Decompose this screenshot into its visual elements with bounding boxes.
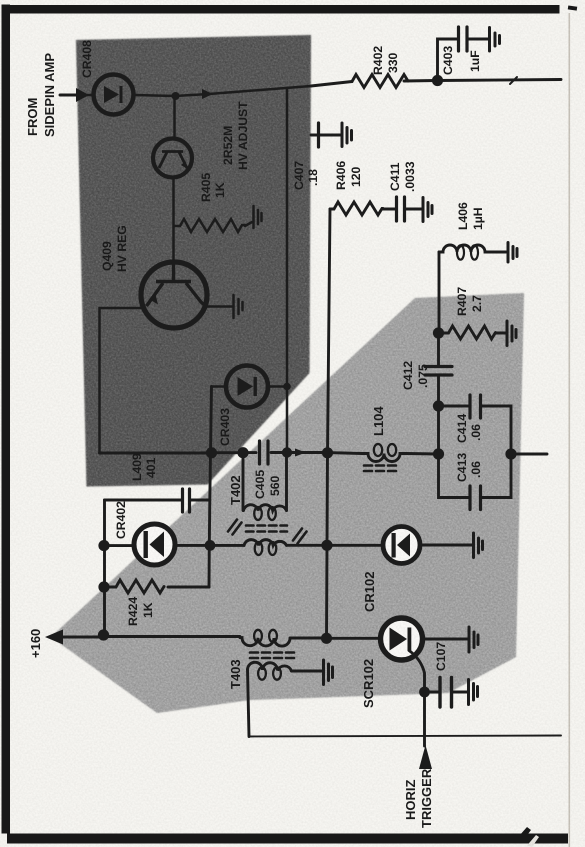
- node CR403-R402 vertical: [286, 88, 289, 453]
- transistor Q408: [153, 139, 192, 178]
- faint page edge line right: [569, 13, 571, 847]
- capacitor C411: [397, 197, 405, 221]
- node junction L104-bus: [322, 447, 333, 458]
- capacitor C413: [470, 486, 481, 510]
- inductor L104: [362, 454, 406, 462]
- node junction bus-T402 right: [282, 447, 292, 457]
- node junction C403: [432, 75, 443, 86]
- transformer T403 lower winding: [248, 662, 292, 671]
- wire node up to C403: [438, 39, 458, 81]
- wire node to R402 exit: [209, 86, 311, 94]
- wire Q409 left loop to bus: [100, 308, 142, 453]
- wire left vertical x104: [103, 500, 106, 637]
- ground (CR102): [474, 533, 483, 558]
- ground (C411): [423, 198, 432, 222]
- wire R407 node down to C412: [437, 333, 440, 366]
- node junction right mid: [505, 448, 516, 459]
- resistor R402: [352, 75, 408, 88]
- +160 feed arrowhead: [45, 630, 63, 645]
- diode CR402: [134, 524, 175, 565]
- core T402: [228, 520, 307, 544]
- Q408 internals: [159, 152, 188, 170]
- node junction C107: [419, 687, 430, 698]
- page curl notch bottom-right: [519, 827, 531, 838]
- wire from sidepin amp w/ arrowhead: [60, 94, 76, 97]
- page frame: left bar: [2, 5, 11, 834]
- node junction CR408-Q408: [172, 92, 180, 100]
- wire R405 to ground: [245, 222, 252, 226]
- ground (Q409): [206, 305, 232, 308]
- wire R424 to vertical: [168, 586, 209, 589]
- tick mark on wire: [510, 77, 517, 84]
- node junction left mid: [433, 448, 444, 459]
- wire right vertical x210: [209, 387, 212, 588]
- wire CR408 to node: [134, 94, 210, 96]
- node junction y545 left: [98, 540, 109, 551]
- Q409 internals: [147, 262, 207, 307]
- capacitor C407: [317, 123, 320, 147]
- node arrowhead: [202, 89, 213, 99]
- wire C414 branch: [439, 406, 512, 454]
- wire mid vertical bus: [327, 209, 331, 638]
- ground (C107): [469, 680, 478, 705]
- wire Q408 to Q409: [172, 178, 175, 263]
- wire T403 lower left lead down: [248, 670, 250, 737]
- core T403: [250, 653, 294, 659]
- wire mid row bus: [406, 452, 439, 455]
- capacitor C403: [459, 27, 468, 51]
- node junction bus-C405: [237, 447, 248, 458]
- capacitor C414: [470, 395, 481, 418]
- wire C407 to ground: [320, 134, 342, 137]
- wire node down to transistor Q408: [173, 97, 176, 140]
- top-right small mark: [568, 5, 577, 10]
- ground (R405): [254, 206, 262, 228]
- wire C403 to ground: [468, 38, 489, 41]
- ground (SCR102): [469, 627, 478, 652]
- node junction top of loop: [433, 400, 444, 411]
- capacitor C406: [183, 489, 190, 512]
- transistor Q409 HV REG: [141, 262, 207, 328]
- page frame: top bar: [2, 5, 560, 14]
- ground (R407): [507, 321, 516, 346]
- wire L406 left vertical: [438, 252, 441, 333]
- wire +160 bus: [63, 637, 468, 640]
- wire right mid stub: [511, 453, 547, 456]
- horiz trigger arrowhead: [419, 745, 432, 769]
- arrowhead on bus at T402 right: [295, 449, 306, 457]
- wire C412 down to loop: [437, 376, 440, 407]
- wire CR403 right lead: [268, 385, 287, 388]
- resistor R406: [330, 202, 383, 215]
- resistor R407: [439, 326, 496, 339]
- wire to C107: [425, 691, 439, 694]
- transformer T403 upper winding: [240, 638, 290, 646]
- wire main bus y452: [100, 451, 328, 454]
- node junction x104-bus160: [98, 629, 109, 640]
- wire C413 branch: [439, 406, 512, 498]
- wire node to right edge: [438, 80, 562, 81]
- inductor L406: [439, 245, 489, 252]
- ground (C403): [490, 28, 500, 52]
- wire row y545: [104, 544, 472, 547]
- diode CR403: [226, 366, 268, 408]
- ground (T403): [324, 660, 333, 685]
- wire R402 to node: [404, 79, 436, 82]
- dark charcoal printed block: [76, 35, 311, 487]
- diode CR408: [94, 75, 134, 115]
- node junction T403-bus: [321, 633, 332, 644]
- node junction y545 mid: [205, 540, 216, 551]
- node junction R407: [433, 327, 444, 338]
- node junction bus-CR403 lead: [206, 447, 217, 458]
- ground (L406): [508, 243, 517, 263]
- transformer T402 lower winding: [244, 540, 287, 546]
- capacitor C405: [260, 441, 269, 464]
- core dashes L104: [364, 466, 396, 472]
- thyristor SCR102: [381, 618, 423, 660]
- wire long bottom rail: [249, 736, 561, 737]
- resistor R405: [174, 219, 245, 232]
- ground (C407): [342, 123, 352, 147]
- wire from sidepin input into block: [86, 94, 92, 97]
- diode CR102: [383, 527, 420, 564]
- capacitor C412: [425, 367, 452, 376]
- node junction y545 bus cross: [321, 540, 332, 551]
- CR403 internals: [238, 377, 257, 396]
- resistor R424: [104, 580, 164, 593]
- wire trigger vertical: [423, 692, 426, 746]
- wire C406 to vertical: [191, 499, 210, 502]
- capacitor C107: [440, 678, 452, 708]
- wire CR402 box top with capacitor: [105, 499, 182, 502]
- wire R406 to C411: [383, 208, 395, 211]
- wire block to C407: [311, 134, 317, 137]
- wire L104 to mid bus: [328, 451, 363, 455]
- wire CR403 left lead: [212, 385, 227, 388]
- gray halftone polygon: [51, 293, 524, 713]
- wire C107 to ground: [453, 691, 467, 694]
- wire L406 to ground: [489, 251, 506, 254]
- node junction x104-R424: [98, 581, 109, 592]
- wire T403 lower to ground: [292, 670, 323, 673]
- wire SCR102 gate down: [409, 651, 425, 693]
- transformer T402 upper winding: [243, 453, 287, 511]
- wire R407 to ground: [496, 332, 506, 335]
- wire block to R402: [311, 82, 352, 87]
- CR408 internals: [104, 86, 123, 103]
- page frame: bottom bar: [7, 834, 568, 844]
- wire C411 to ground: [406, 208, 423, 211]
